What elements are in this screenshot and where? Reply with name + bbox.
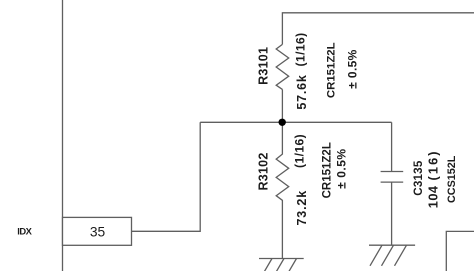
svg-text:(16): (16) xyxy=(426,149,441,180)
svg-text:CR151Z2L: CR151Z2L xyxy=(326,42,338,98)
ground below R3102 xyxy=(259,259,304,271)
wire from box 35 xyxy=(132,122,201,231)
node junction dot xyxy=(279,119,286,126)
wire R3101 to node xyxy=(281,89,283,122)
resistor R3102 xyxy=(276,122,289,258)
svg-text:C3135: C3135 xyxy=(412,160,425,196)
box bottom right xyxy=(446,231,474,271)
svg-text:R3101: R3101 xyxy=(256,47,270,85)
svg-text:± 0.5%: ± 0.5% xyxy=(345,49,359,88)
wire left vertical bus xyxy=(62,0,64,271)
svg-text:35: 35 xyxy=(90,224,106,239)
svg-text:73.2k: 73.2k xyxy=(295,190,309,226)
wire top net xyxy=(282,13,474,45)
svg-text:CCS152L: CCS152L xyxy=(446,155,458,203)
svg-text:104: 104 xyxy=(426,185,441,208)
svg-text:IDX: IDX xyxy=(17,225,32,236)
resistor R3101 xyxy=(276,44,289,89)
wire node horizontal xyxy=(200,121,391,123)
svg-text:(1/16): (1/16) xyxy=(294,32,308,66)
svg-text:57.6k: 57.6k xyxy=(295,74,309,109)
svg-text:CR151Z2L: CR151Z2L xyxy=(322,142,334,198)
svg-text:(1/16): (1/16) xyxy=(293,134,307,168)
capacitor C3135 xyxy=(381,122,404,245)
ground below C3135 xyxy=(369,245,415,266)
svg-text:R3102: R3102 xyxy=(256,152,270,190)
box 35 xyxy=(63,217,132,245)
svg-text:± 0.5%: ± 0.5% xyxy=(335,148,349,188)
